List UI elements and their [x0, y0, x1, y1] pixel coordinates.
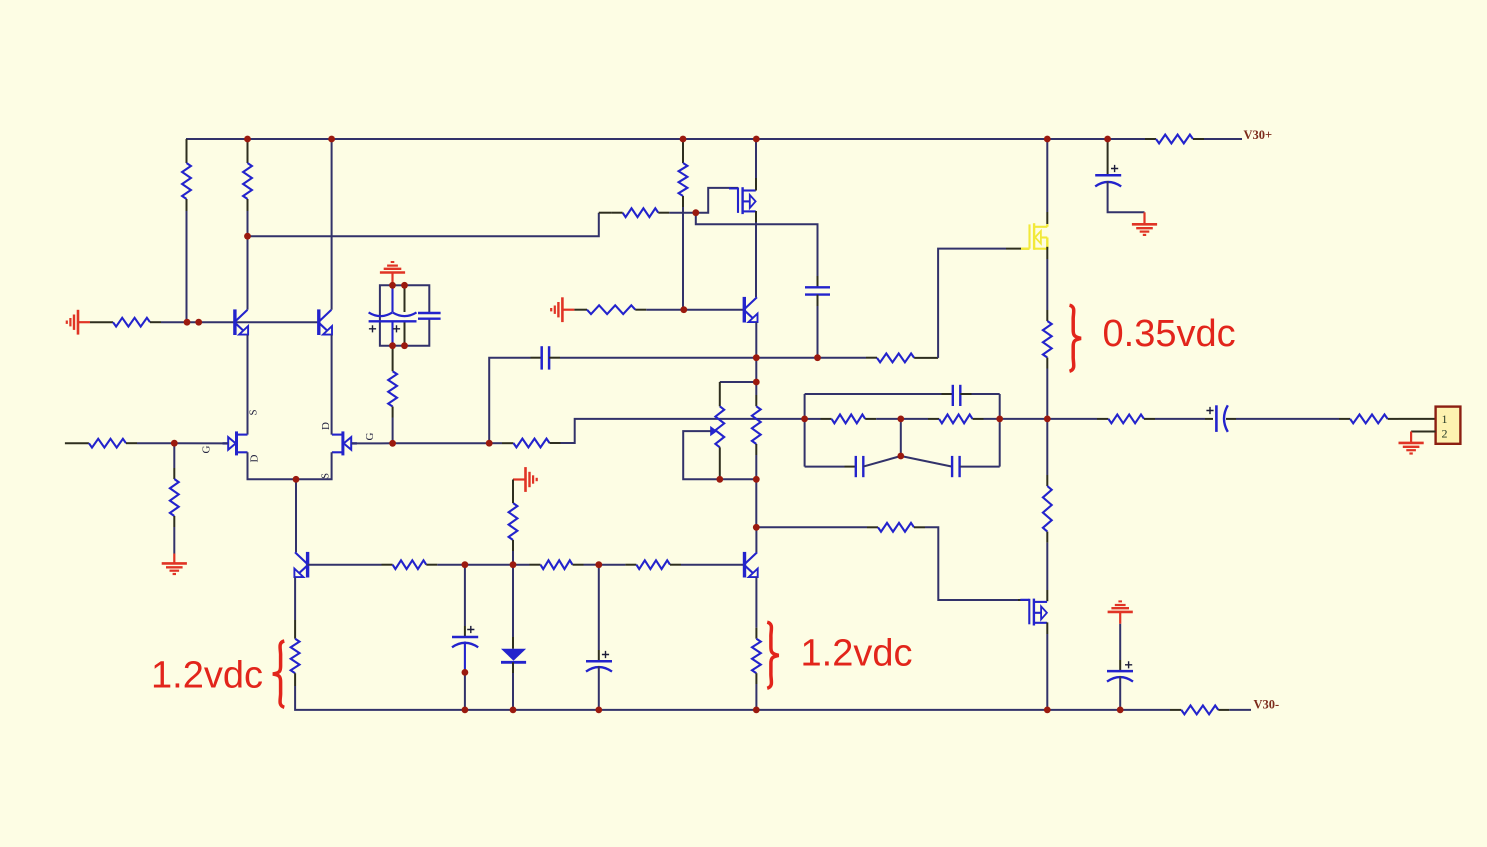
electrolytic cap C5 — [464, 565, 466, 626]
resistor R-out1 — [1097, 418, 1108, 420]
wire corner into mid rail — [561, 419, 805, 443]
wire output — [1047, 418, 1097, 420]
shared straight plates — [369, 320, 417, 322]
electrolytic cap C6 — [598, 565, 600, 650]
electrolytic cap C8 — [1119, 624, 1121, 660]
resistor R9 (x=392.6 vertical) — [392, 346, 394, 372]
wire to mirror bases — [161, 321, 235, 323]
earth ground bottom-left — [162, 554, 187, 575]
wire — [755, 358, 757, 382]
wire — [560, 357, 756, 359]
earth ground top-right — [1143, 212, 1145, 224]
antenna ground above cap block — [380, 262, 405, 285]
pot wiper loop — [683, 431, 720, 479]
svg-text:S: S — [248, 409, 260, 415]
V30- bottom supply rail — [465, 709, 1170, 711]
svg-text:1: 1 — [1442, 412, 1448, 426]
wire corner x=489 — [489, 358, 530, 444]
JFET J2 — [332, 431, 357, 455]
ceramic bypass cap on right edge — [418, 312, 441, 314]
V30+ top supply rail — [186, 138, 1145, 140]
wire Q4 source down to Q3 — [755, 211, 757, 222]
wire J1 drain down & across to J2 — [248, 452, 332, 479]
wire tail node down to Q5 — [295, 479, 297, 552]
resistor R (y=357.7 gate feed) — [818, 357, 867, 359]
top edge with cap — [805, 393, 942, 395]
resistor R5 input y=322 — [90, 321, 113, 323]
wire Q4 drain up to rail — [755, 139, 757, 178]
resistor R4 (y=212) — [599, 212, 612, 214]
wire to Q3 base — [646, 309, 744, 311]
resistor R8 (to ground) — [173, 443, 175, 468]
svg-text:1.2vdc: 1.2vdc — [151, 655, 263, 697]
wire node row y=236 — [248, 213, 599, 237]
junction dots — [244, 136, 251, 143]
power mosfet Q7 (highlighted) — [1021, 223, 1047, 250]
resistor R11 x=756 — [755, 382, 757, 395]
brace 1.2vdc left — [273, 641, 285, 707]
gate loop wire of Q4 — [696, 188, 731, 213]
capacitor C-b lead — [404, 285, 406, 312]
series capacitor C3 — [531, 357, 542, 359]
output electrolytic cap — [1205, 418, 1213, 420]
ground (left, input bias) — [67, 310, 90, 335]
resistor R15 — [867, 526, 878, 528]
wire Q5 base row — [308, 564, 382, 566]
wire — [137, 442, 174, 444]
wire to output column — [1000, 418, 1048, 420]
miller cap branch wire — [696, 213, 818, 276]
ground for Q3 base — [551, 297, 574, 322]
wire pot top — [720, 381, 757, 383]
resistor R21 — [512, 480, 514, 492]
wire to J1 gate — [174, 442, 228, 444]
earth ground at connector — [1399, 432, 1424, 454]
wire Q7 source down — [1046, 247, 1048, 259]
wire y=527 — [756, 526, 867, 528]
svg-text:G: G — [364, 433, 376, 441]
electrolytic cap C2 — [1107, 139, 1109, 175]
angled wires — [863, 456, 901, 467]
mosfet Q8 (bottom) — [1020, 599, 1047, 626]
resistor R6 y=310 — [574, 309, 587, 311]
capacitor C-a lead — [391, 285, 393, 312]
twin electrolytic capacitor block outline — [380, 285, 393, 345]
wire drain from rail — [1046, 139, 1048, 212]
capacitor C-b plates — [393, 312, 417, 316]
JFET J1 — [223, 431, 248, 455]
wire — [186, 211, 188, 322]
svg-text:D: D — [320, 422, 332, 430]
resistor R18 — [382, 564, 393, 566]
pin2 ground wire — [1411, 431, 1436, 433]
right edge — [999, 394, 1001, 467]
resistor R16 0.35vdc — [1046, 310, 1048, 321]
capacitor C-a plates — [369, 312, 393, 316]
transistor Q5 — [294, 552, 307, 578]
wire — [437, 564, 513, 566]
middle row resistors — [805, 418, 821, 420]
wire — [393, 442, 490, 444]
vertical resistor R3 x=683 — [682, 139, 684, 163]
wire up to top mosfet gate — [938, 249, 1006, 358]
resistor top-right to V30+ — [1145, 138, 1156, 140]
resistor R10 y=443 — [489, 442, 502, 444]
resistor R20 — [599, 564, 626, 566]
resistor R19 — [513, 564, 530, 566]
wire — [669, 212, 696, 214]
input stub wire — [65, 442, 89, 444]
wire Q8 source to rail — [1046, 622, 1048, 634]
resistor R-out2 — [1339, 418, 1350, 420]
capacitor C-fb-bl — [855, 456, 857, 477]
resistor bottom-right to V30- — [1181, 706, 1218, 715]
transistor Q2 — [319, 309, 332, 335]
wire Q6 emitter / resistor 1.2vdc right — [755, 577, 757, 627]
wire / resistor R17 — [1046, 419, 1048, 475]
mosfet Q4 (top middle) — [729, 187, 756, 214]
wire Q1 emitter down to J1 — [247, 335, 249, 435]
transistor Q6 — [745, 552, 758, 578]
svg-text:2: 2 — [1442, 427, 1448, 441]
wire Q2 collector up to rail — [331, 139, 333, 310]
wire to Q1 collector — [247, 236, 249, 310]
connector J-out — [1436, 407, 1461, 444]
svg-text:0.35vdc: 0.35vdc — [1103, 313, 1236, 355]
feedback box left edge — [804, 394, 806, 467]
svg-text:V30+: V30+ — [1244, 128, 1273, 142]
capacitor C-fb-br — [951, 456, 953, 477]
center vertical — [900, 419, 902, 456]
wire — [720, 478, 757, 480]
transistor Q1 — [235, 309, 248, 335]
svg-text:S: S — [320, 473, 332, 479]
capacitor C-fb-top — [952, 385, 954, 406]
wire between Q1 and Q2 bases — [235, 321, 319, 323]
svg-text:D: D — [249, 455, 261, 463]
svg-text:G: G — [201, 446, 213, 454]
zener diode D1 — [512, 565, 514, 637]
transistor Q3 — [744, 297, 757, 323]
wire Q2 emitter down to J2 — [331, 335, 333, 435]
wire — [247, 211, 249, 236]
ground (mid, above R21) — [513, 467, 537, 492]
wire corner to Q8 gate — [925, 527, 1018, 600]
resistor R7 input y=443 — [89, 439, 126, 448]
svg-text:1.2vdc: 1.2vdc — [801, 633, 913, 675]
wire J2 gate — [352, 442, 393, 444]
brace 0.35vdc — [1070, 305, 1082, 371]
resistor R-left-1 (x=186) — [186, 139, 188, 163]
svg-text:V30-: V30- — [1254, 698, 1280, 712]
wire Q5 emitter / resistor / corner to bottom rail — [294, 577, 296, 620]
wire Q3 emitter down — [755, 322, 757, 358]
bottom edge with 2 caps — [805, 466, 845, 468]
potentiometer — [719, 382, 721, 406]
capacitor C4 (x=817.5) — [817, 276, 819, 287]
wire Q6 collector up — [755, 527, 757, 552]
resistor R-left-2 (x=247) — [247, 139, 249, 163]
antenna ground bottom-right — [1108, 601, 1133, 623]
brace 1.2vdc right — [767, 622, 779, 688]
